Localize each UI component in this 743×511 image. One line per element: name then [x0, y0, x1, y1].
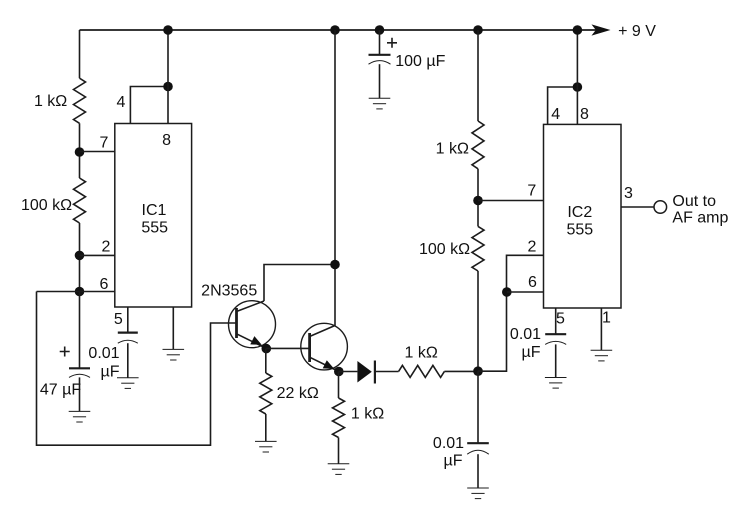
wire R3 to pin7 node [477, 169, 479, 227]
label pin 4 IC2 [551, 106, 560, 123]
wire left branch from rail [79, 30, 81, 78]
svg-text:1 kΩ: 1 kΩ [34, 93, 67, 110]
wire rail to R3 [477, 30, 479, 121]
svg-text:IC2: IC2 [567, 204, 592, 221]
wire pin 1 IC2 [600, 308, 602, 350]
ground C3 [369, 98, 391, 109]
label pin 7 IC1 [100, 134, 109, 151]
svg-text:8: 8 [580, 106, 589, 123]
ground R5 [255, 441, 277, 452]
svg-text:22 kΩ: 22 kΩ [277, 385, 319, 402]
svg-text:2: 2 [528, 238, 537, 255]
svg-text:1: 1 [602, 310, 611, 327]
svg-text:µF: µF [522, 344, 541, 361]
label pin 6 IC1 [100, 276, 109, 293]
label pin 6 IC2 [528, 274, 537, 291]
wire Q1 collector run [264, 265, 335, 302]
wire pin 2 IC2 [478, 255, 544, 371]
resistor R1 1 kOhm (left top) [74, 78, 86, 123]
svg-text:4: 4 [117, 94, 126, 111]
wire R6 to ground [338, 438, 340, 464]
svg-text:0.01: 0.01 [88, 345, 119, 362]
label IC2 [567, 204, 592, 221]
label pin 5 IC2 [556, 311, 565, 328]
wire pin 5 IC2 [555, 308, 557, 334]
label 555 (IC2) [566, 222, 593, 239]
transistor Q1 2N3565 circle [229, 301, 276, 348]
label 100 kOhm (R4) [419, 241, 470, 258]
wire diode to R7 [375, 371, 399, 373]
node Q1 emitter [262, 344, 272, 354]
svg-text:5: 5 [556, 311, 565, 328]
wire pin 4 IC2 [548, 87, 578, 124]
wire pin 8 IC2 [576, 30, 578, 124]
wire feedback loop left-bottom [37, 292, 237, 446]
capacitor C5 0.01 uF (IC2 pin5) [545, 334, 566, 344]
label 2N3565 (Q1) [201, 282, 257, 299]
label 1 kOhm (R3) [436, 140, 469, 157]
label 0.01 (C5) [510, 326, 541, 343]
label 47 uF (C1) [40, 381, 81, 398]
svg-text:4: 4 [551, 106, 560, 123]
svg-text:7: 7 [527, 183, 536, 200]
wire pin 8 IC1 [167, 30, 169, 124]
label 1 kOhm (R6) [351, 406, 384, 423]
svg-text:µF: µF [444, 452, 463, 469]
label uF (C2) [101, 363, 120, 380]
wire R4 to node N [477, 271, 479, 371]
label uF (C4) [444, 452, 463, 469]
label Out to [672, 193, 716, 210]
node N junction [473, 366, 483, 376]
label 100 uF (C3) [395, 53, 445, 70]
label + 9 V [618, 23, 656, 40]
label 555 (IC1) [141, 219, 168, 236]
node Q2 emitter [334, 367, 344, 377]
wire node N to C4 [477, 371, 479, 443]
svg-text:100 kΩ: 100 kΩ [21, 197, 72, 214]
node supply rail right divider [473, 25, 483, 35]
wire pin 4 IC1 [130, 87, 168, 124]
svg-text:2N3565: 2N3565 [201, 282, 257, 299]
label uF (C5) [522, 344, 541, 361]
wire R2 to pin2/pin6 nodes [79, 223, 81, 292]
node supply rail above IC2 [573, 25, 583, 35]
wire C3 to ground [379, 64, 381, 98]
ground C4 [467, 488, 489, 499]
node supply rail at C3 [375, 25, 385, 35]
resistor R7 1 kOhm (horizontal) [399, 365, 445, 377]
transistor Q1 emitter lead [237, 334, 267, 349]
transistor Q1 base bar [235, 308, 238, 338]
svg-text:0.01: 0.01 [433, 435, 464, 452]
diode D1 triangle [357, 361, 371, 383]
wire pin 7 IC1 [80, 151, 115, 153]
svg-text:100 µF: 100 µF [395, 53, 445, 70]
label + polarity (C1) [60, 347, 70, 357]
capacitor C2 0.01 uF (IC1 pin5) [118, 333, 138, 344]
svg-text:1 kΩ: 1 kΩ [405, 345, 438, 362]
label pin 5 IC1 [114, 311, 123, 328]
svg-text:555: 555 [566, 222, 593, 239]
svg-text:0.01: 0.01 [510, 326, 541, 343]
svg-text:555: 555 [141, 219, 168, 236]
label 1 kOhm (R7) [405, 345, 438, 362]
ground C2 [117, 378, 139, 389]
node supply rail above IC1 [163, 25, 173, 35]
node pin4/pin8 IC2 [573, 82, 583, 92]
svg-text:1 kΩ: 1 kΩ [351, 406, 384, 423]
label pin 2 IC1 [102, 238, 111, 255]
wire R5 to ground [265, 414, 267, 441]
wire rail to C3 [379, 30, 381, 55]
label 100 kOhm (R2) [21, 197, 72, 214]
svg-text:2: 2 [102, 238, 111, 255]
ground R6 [328, 464, 350, 475]
node pin6 IC1 [75, 287, 85, 297]
resistor R3 1 kOhm (right) [472, 121, 484, 169]
svg-text:3: 3 [624, 185, 633, 202]
wire R1 to pin7 node [79, 123, 81, 178]
transistor Q1 collector lead [237, 301, 265, 312]
label 1 kOhm (R1) [34, 93, 67, 110]
transistor Q2 circle [301, 323, 348, 370]
wire Q2 emitter to diode [339, 371, 358, 373]
svg-text:5: 5 [114, 311, 123, 328]
ground IC2 pin1 [591, 350, 613, 361]
wire pin 2 IC1 [80, 254, 115, 256]
svg-text:8: 8 [162, 132, 171, 149]
transistor Q2 emitter lead [310, 357, 339, 371]
wire C4 to ground [477, 454, 479, 488]
node pin6 IC2 [502, 287, 512, 297]
wire C2 to ground [127, 343, 129, 378]
label AF amp [672, 210, 728, 227]
svg-text:IC1: IC1 [142, 202, 167, 219]
resistor R6 1 kOhm (below Q2) [333, 398, 345, 438]
node collector junction [330, 260, 340, 270]
wire pin 1 IC1 [172, 307, 174, 349]
label 0.01 (C2) [88, 345, 119, 362]
svg-text:AF amp: AF amp [672, 210, 728, 227]
wire Q1 emitter to R5 [265, 349, 267, 373]
label + polarity (C3) [387, 38, 397, 48]
wire pin 5 IC1 [127, 307, 129, 332]
node supply rail at collector bus [330, 25, 340, 35]
svg-text:100 kΩ: 100 kΩ [419, 241, 470, 258]
wire Q1 emitter to Q2 base [266, 347, 310, 349]
svg-text:1 kΩ: 1 kΩ [436, 140, 469, 157]
node pin7 IC1 [75, 147, 85, 157]
label pin 1 IC2 [602, 310, 611, 327]
label 22 kOhm (R5) [277, 385, 319, 402]
capacitor C1 47 uF electrolytic [69, 368, 90, 377]
label pin 8 IC2 [580, 106, 589, 123]
node pin7 IC2 [473, 196, 483, 206]
transistor Q2 collector lead [310, 326, 335, 337]
label pin 2 IC2 [528, 238, 537, 255]
wire collector bus [334, 30, 336, 326]
svg-text:6: 6 [528, 274, 537, 291]
capacitor C4 0.01 uF (bottom) [467, 443, 489, 454]
resistor R2 100 kOhm (left) [74, 178, 86, 223]
svg-text:Out to: Out to [672, 193, 716, 210]
wire R7 to node N [444, 370, 478, 372]
wire pin 3 IC2 output [621, 206, 654, 208]
IC2 555 box [544, 124, 622, 308]
node pin4/pin8 IC1 [163, 82, 173, 92]
wire +9V supply rail [80, 29, 597, 31]
ground C1 [69, 411, 91, 422]
resistor R4 100 kOhm (right) [472, 226, 484, 271]
label pin 4 IC1 [117, 94, 126, 111]
wire pin 6 IC1 [37, 291, 115, 293]
+9 V supply arrow [592, 24, 611, 35]
svg-text:6: 6 [100, 276, 109, 293]
svg-text:7: 7 [100, 134, 109, 151]
svg-text:47 µF: 47 µF [40, 381, 81, 398]
label pin 8 IC1 [162, 132, 171, 149]
wire pin 7 IC2 [478, 200, 544, 202]
wire pin 6 IC2 [507, 291, 544, 293]
label IC1 [142, 202, 167, 219]
IC1 555 box [115, 124, 192, 308]
ground IC1 pin1 [163, 349, 185, 360]
transistor Q2 base bar [308, 333, 311, 362]
label pin 7 IC2 [527, 183, 536, 200]
ground C5 [545, 378, 567, 389]
diode D1 cathode bar [374, 361, 376, 384]
wire Q2 emitter to R6 [338, 372, 340, 399]
resistor R5 22 kOhm [260, 373, 272, 414]
capacitor C3 100 uF electrolytic [369, 55, 391, 64]
node pin2 IC1 [75, 251, 85, 261]
output terminal circle [654, 201, 667, 214]
label pin 3 IC2 [624, 185, 633, 202]
wire C5 to ground [555, 344, 557, 377]
wire pin6 node to C1 [79, 292, 81, 369]
svg-text:+ 9 V: + 9 V [618, 23, 656, 40]
wire C1 to ground [79, 377, 81, 411]
label 0.01 (C4) [433, 435, 464, 452]
svg-text:µF: µF [101, 363, 120, 380]
